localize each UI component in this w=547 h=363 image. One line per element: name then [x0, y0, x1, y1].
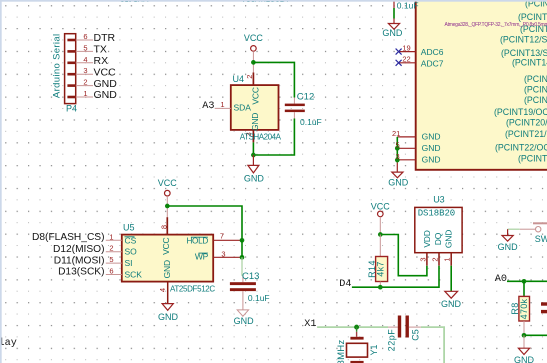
- svg-text:ADC6: ADC6: [421, 47, 444, 57]
- svg-text:C13: C13: [242, 271, 259, 282]
- svg-text:5: 5: [396, 140, 400, 149]
- svg-text:GND: GND: [514, 355, 535, 363]
- svg-text:470k: 470k: [519, 298, 529, 319]
- svg-text:21: 21: [392, 129, 400, 138]
- svg-text:2: 2: [245, 75, 254, 79]
- svg-text:GND: GND: [498, 242, 519, 252]
- svg-text:4: 4: [83, 55, 87, 64]
- svg-text:8MHz: 8MHz: [336, 339, 347, 363]
- svg-text:TX: TX: [94, 44, 107, 56]
- svg-text:(PCINT21/: (PCINT21/: [505, 129, 547, 139]
- svg-text:VCC: VCC: [371, 201, 391, 211]
- svg-text:(PCINT12/SC: (PCINT12/SC: [500, 34, 547, 44]
- svg-text:1: 1: [83, 89, 87, 98]
- svg-text:(PCINT22/OC: (PCINT22/OC: [495, 143, 547, 153]
- svg-text:3: 3: [221, 249, 225, 258]
- svg-text:(PCINT: (PCINT: [518, 153, 547, 163]
- svg-text:RX: RX: [94, 55, 109, 67]
- svg-text:SI: SI: [125, 258, 133, 268]
- svg-text:Y1: Y1: [369, 344, 379, 355]
- svg-text:GND: GND: [422, 154, 441, 164]
- svg-text:SO: SO: [125, 247, 138, 257]
- svg-text:5: 5: [109, 255, 113, 264]
- svg-text:GND: GND: [422, 143, 441, 153]
- svg-text:1: 1: [109, 232, 113, 241]
- svg-text:A3: A3: [202, 101, 214, 112]
- svg-text:A0: A0: [495, 274, 507, 285]
- svg-text:(PCINT13/S: (PCINT13/S: [501, 48, 547, 58]
- svg-text:lay: lay: [0, 337, 17, 349]
- svg-text:ADC7: ADC7: [421, 58, 444, 68]
- svg-text:GND: GND: [162, 260, 172, 278]
- svg-text:19: 19: [402, 44, 410, 53]
- svg-text:3: 3: [418, 257, 427, 261]
- svg-text:AT25DF512C: AT25DF512C: [170, 285, 215, 294]
- svg-text:VCC: VCC: [94, 66, 117, 78]
- svg-text:GND: GND: [441, 299, 462, 309]
- svg-text:22pF: 22pF: [387, 329, 397, 352]
- svg-text:C5: C5: [410, 329, 420, 341]
- svg-text:SDA: SDA: [234, 103, 252, 113]
- svg-text:DTR: DTR: [94, 32, 116, 44]
- svg-text:Atmega328,_QFP.TQFP-32,_7x7mm,: Atmega328,_QFP.TQFP-32,_7x7mm,_P0.8x0.5m…: [445, 22, 547, 28]
- svg-text:5: 5: [83, 43, 87, 52]
- svg-text:X1: X1: [304, 319, 316, 330]
- svg-text:GND: GND: [234, 316, 255, 326]
- svg-text:6: 6: [83, 32, 87, 41]
- svg-text:GND: GND: [244, 174, 265, 184]
- svg-text:2: 2: [430, 257, 439, 261]
- svg-text:GND: GND: [444, 230, 454, 248]
- svg-text:D13(SCK): D13(SCK): [58, 267, 104, 278]
- svg-text:VCC: VCC: [244, 33, 264, 43]
- svg-text:DQ: DQ: [433, 232, 443, 245]
- svg-text:1: 1: [220, 100, 224, 109]
- svg-text:(PCINT20/: (PCINT20/: [506, 118, 547, 128]
- svg-text:HOLD: HOLD: [186, 237, 208, 246]
- svg-text:(PCINT19/OC: (PCINT19/OC: [494, 107, 547, 117]
- svg-text:(PCIN: (PCIN: [524, 95, 547, 105]
- svg-text:DS18B20: DS18B20: [418, 208, 455, 218]
- svg-text:VDD: VDD: [422, 230, 432, 247]
- svg-text:4: 4: [158, 288, 167, 292]
- svg-text:GND: GND: [422, 132, 441, 142]
- svg-text:P4: P4: [66, 104, 77, 114]
- svg-text:4k7: 4k7: [376, 261, 386, 276]
- svg-text:SW.: SW.: [535, 234, 547, 244]
- svg-text:VCC: VCC: [161, 237, 171, 254]
- svg-text:(PCIN: (PCIN: [524, 74, 547, 84]
- svg-text:D8(FLASH_CS): D8(FLASH_CS): [32, 232, 104, 243]
- svg-text:2: 2: [109, 244, 113, 253]
- svg-text:U3: U3: [433, 195, 445, 205]
- svg-text:GND: GND: [250, 113, 260, 131]
- svg-text:GND: GND: [388, 178, 409, 188]
- svg-text:(PCINT2: (PCINT2: [518, 12, 547, 22]
- svg-text:VCC: VCC: [158, 178, 178, 188]
- svg-text:U5: U5: [123, 223, 135, 233]
- svg-text:GND: GND: [94, 78, 118, 90]
- svg-text:VCC: VCC: [250, 87, 260, 104]
- svg-text:D11(MOSI): D11(MOSI): [54, 255, 105, 266]
- svg-text:0.1uF: 0.1uF: [397, 0, 419, 10]
- svg-text:2: 2: [83, 78, 87, 87]
- svg-text:6: 6: [109, 267, 113, 276]
- svg-text:(PCINT14: (PCINT14: [512, 58, 547, 68]
- svg-text:SCK: SCK: [125, 270, 143, 280]
- svg-text:22: 22: [402, 55, 410, 64]
- svg-text:U4: U4: [233, 74, 245, 84]
- svg-text:8: 8: [159, 225, 168, 229]
- svg-text:ATSHA204A: ATSHA204A: [240, 132, 282, 141]
- svg-text:(PCIN: (PCIN: [524, 84, 547, 94]
- svg-text:GND: GND: [94, 89, 118, 101]
- svg-text:1: 1: [443, 257, 452, 261]
- svg-text:0.1uF: 0.1uF: [300, 117, 322, 127]
- svg-text:Arduino Serial: Arduino Serial: [52, 34, 63, 99]
- svg-text:GND: GND: [158, 312, 179, 322]
- svg-text:D4: D4: [339, 279, 351, 290]
- svg-text:7: 7: [220, 231, 224, 240]
- svg-text:0.1uF: 0.1uF: [248, 293, 270, 303]
- svg-text:3: 3: [83, 66, 87, 75]
- svg-text:GND: GND: [382, 28, 403, 38]
- svg-text:D12(MISO): D12(MISO): [53, 244, 105, 255]
- svg-text:3: 3: [396, 152, 400, 161]
- svg-text:C12: C12: [297, 91, 314, 102]
